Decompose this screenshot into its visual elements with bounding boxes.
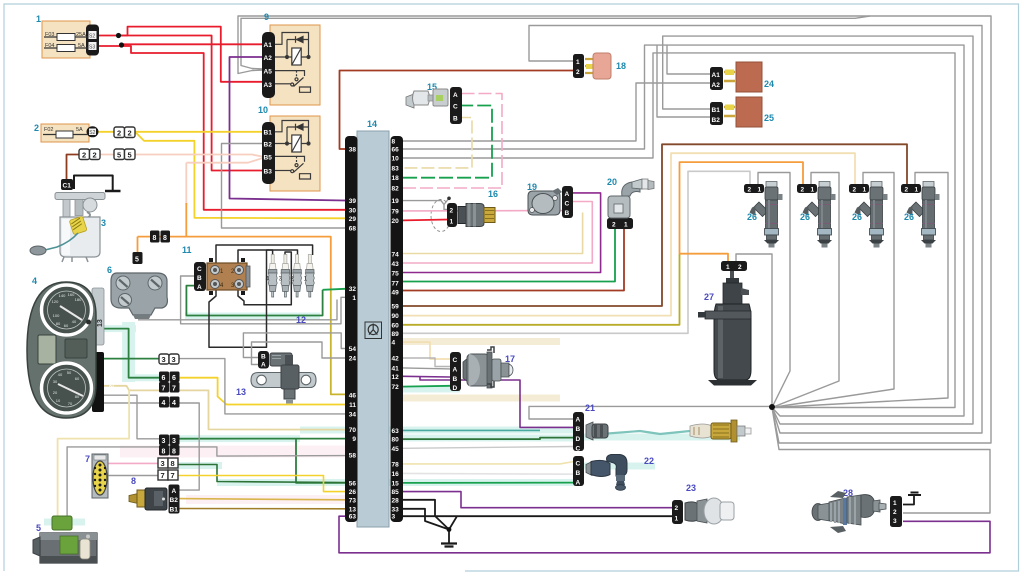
oil pressure sensor 8 [129,476,180,514]
svg-text:41: 41 [392,365,400,372]
svg-text:120: 120 [52,299,59,304]
svg-text:10: 10 [392,156,400,163]
svg-text:13: 13 [349,506,357,513]
svg-text:26: 26 [349,489,357,496]
svg-text:A: A [565,191,570,198]
svg-text:5A: 5A [78,43,85,49]
svg-text:D: D [576,436,581,443]
wire gray: canister valve 27 pin2 up to junction [736,254,772,406]
connector 24 [710,62,774,92]
wire orange: canister 27 pin1 tee [680,254,729,263]
wire gray: immobilizer 5 right down to sensor 8 pin A [67,447,345,519]
wire black: coil t1 to plug1 [216,245,313,266]
immobilizer 5 [33,516,97,563]
wire gray: injector4 pin1 loop to junction [772,173,948,408]
svg-text:83: 83 [392,165,400,172]
svg-text:43: 43 [392,261,400,268]
svg-text:70: 70 [68,401,73,406]
svg-text:B5: B5 [264,155,273,162]
svg-text:66: 66 [392,147,400,154]
svg-text:89: 89 [392,331,400,338]
svg-text:27: 27 [704,292,714,302]
inline connector 2-2 brown row [79,149,100,160]
wire paleyellow: immobilizer 5 up to 7-7 tee [58,390,130,519]
wire brown: pin49 to sensor20 pin1 [403,228,624,291]
svg-text:78: 78 [392,461,400,468]
wire gray: injector1 pin1 loop to junction [758,173,790,408]
svg-text:B2: B2 [712,117,721,124]
svg-text:75: 75 [392,270,400,277]
ignition module 11 [182,245,250,295]
svg-text:C1: C1 [63,183,72,190]
black tag 5 stub [133,252,143,264]
svg-text:8: 8 [172,449,176,456]
wire black: coil t3 to plug3 [238,252,291,305]
svg-text:C: C [197,266,202,273]
svg-text:11: 11 [349,402,356,409]
wire green: ignition module A left down right up to ECU pin32 [186,286,322,316]
svg-text:2: 2 [675,505,679,512]
svg-text:140: 140 [59,293,66,298]
relay 10 [258,105,320,191]
svg-text:F04: F04 [45,43,54,49]
svg-text:58: 58 [349,453,357,460]
svg-text:30: 30 [53,379,58,384]
inline connector 2-2 yellow row [114,127,135,138]
svg-text:7: 7 [162,386,166,393]
wire gray: inline 3-3 white to ECU pin34 [177,359,345,414]
wire gray: 18 pin1 up over to x982 down to junction [529,26,982,434]
wire maroon: ECU pin38 up to connector 18 pin2 [340,71,576,150]
wire black: fuel pump ground [74,176,113,191]
inline pair 4-4 black [159,397,180,408]
wire black: coil t2 to plug2 [238,250,298,266]
svg-text:C: C [453,104,458,111]
svg-text:15: 15 [392,480,400,487]
svg-text:A5: A5 [264,69,273,76]
svg-text:68: 68 [349,226,357,233]
sensor 15 [406,82,462,124]
svg-text:B: B [453,116,458,123]
svg-text:1: 1 [726,264,730,271]
svg-text:180: 180 [75,297,82,302]
svg-text:20: 20 [392,218,400,225]
fuel pump module 3 [30,179,106,262]
wire gray top double line 1: relay9 A5 to right vertical x991 down to junction [241,16,991,443]
svg-text:4: 4 [32,276,37,286]
svg-text:8: 8 [392,139,396,146]
spark plugs 12 [266,255,315,326]
fuse box 1 [36,14,99,58]
svg-text:7: 7 [171,471,175,480]
svg-text:12: 12 [296,315,306,325]
wire olive: x330 down to ECU pin46 [331,289,345,394]
svg-text:2: 2 [893,509,897,516]
wire gray: cluster tab4 through 4-4 to sensor 8 pin A [101,403,199,490]
svg-text:34: 34 [349,411,357,418]
svg-text:10: 10 [258,105,268,115]
svg-text:6: 6 [107,265,112,275]
cam sensor 19 [527,182,573,218]
svg-text:40: 40 [58,372,63,377]
svg-text:63: 63 [349,514,357,521]
svg-text:B3: B3 [264,169,273,176]
svg-text:B2: B2 [264,142,273,149]
wire cream: cluster tab4 to inline 7-7 [101,386,160,391]
svg-text:D: D [453,385,458,392]
svg-text:S3: S3 [89,45,95,51]
svg-text:54: 54 [349,346,357,353]
svg-text:1: 1 [576,59,580,66]
wire gray: crank sensor 13 B up over to ECU pin54 [243,333,345,358]
wire gray: OBD 7 to inline 7-7 [108,475,158,477]
svg-text:2: 2 [748,186,752,193]
svg-text:80: 80 [56,321,61,326]
wire gray: main junction feed and oxygen sensor A drop [529,406,772,419]
svg-text:C: C [453,357,458,364]
wire beige: pin4 to IAC17 C [403,342,450,359]
throttle position sensor 6 [107,265,167,319]
svg-text:60: 60 [64,323,69,328]
svg-text:3: 3 [392,514,396,521]
inline connector 5-5 [114,149,135,160]
highlight cyan bands [44,316,740,522]
svg-text:7: 7 [85,454,90,464]
svg-text:25: 25 [764,113,774,123]
wire maroon: pin59 to injector4 [403,144,907,306]
svg-text:11: 11 [182,245,192,255]
svg-text:49: 49 [392,290,400,297]
svg-text:2: 2 [128,129,132,138]
wire palepink: inline 5-5 connector to relay10 B5 double [98,155,265,157]
wire darkgreen: inline 3-8 right join pin56 [178,465,345,483]
connector 25 [710,97,774,127]
wire purple: pin12 to IAC17 B and oxygen21 B [403,375,450,378]
svg-text:B: B [197,275,202,282]
wire yellow: inline 6-6 to ECU pin11 [177,378,345,405]
wire yellow: sensor 8 B2 to ECU pin73 [180,499,346,500]
svg-text:59: 59 [392,304,400,311]
svg-text:3: 3 [162,355,166,364]
wire green: pin77 to sensor20 pin2 [403,228,615,282]
svg-text:19: 19 [392,198,400,205]
sensor 20 [607,177,654,229]
wire gray: second gray companion line [138,300,337,320]
connector 18 [573,53,626,79]
svg-text:B1: B1 [170,507,179,514]
crank sensor 13 [236,351,316,404]
svg-text:2: 2 [450,208,454,215]
svg-text:1: 1 [352,295,356,302]
sensor 22 [573,455,654,491]
relay 9 [262,12,320,105]
svg-text:6: 6 [162,375,166,382]
svg-text:5: 5 [135,257,139,264]
svg-text:C: C [565,201,570,208]
wire gray: pin41 to IAC17 A2 [403,368,450,369]
svg-text:F03: F03 [45,32,54,38]
svg-text:6: 6 [172,375,176,382]
svg-text:3: 3 [161,459,165,468]
wire teal: pin63r right [403,429,540,431]
svg-text:3: 3 [893,518,897,525]
svg-text:24: 24 [764,79,774,89]
svg-text:8: 8 [153,235,157,242]
svg-text:8: 8 [171,459,175,468]
svg-text:1: 1 [450,219,454,226]
svg-text:5A: 5A [76,127,83,133]
svg-text:46: 46 [349,392,357,399]
inline pairs near cluster: 3-3 [159,354,179,364]
svg-text:17: 17 [505,354,515,364]
knock sensor 16 [447,189,498,227]
ECU 14 [345,119,403,527]
svg-text:26: 26 [747,212,757,222]
wire gray: ignition module B left down to y323.8 to ECU pin1 [181,276,345,324]
svg-text:4: 4 [392,340,396,347]
wire black: pin3 to sensor23 pin1 [403,515,674,517]
svg-text:33: 33 [392,506,400,513]
svg-text:40: 40 [72,319,77,324]
svg-text:25A: 25A [76,32,86,38]
svg-text:B1: B1 [264,130,273,137]
svg-text:5: 5 [128,151,132,160]
svg-text:14: 14 [367,119,377,129]
svg-text:A: A [576,417,581,424]
svg-text:C: C [576,446,581,453]
wire orange: pin60 to injector2 [403,254,680,325]
svg-text:2: 2 [117,129,121,138]
wire purple: pin85 to sensor23 pin2 [403,492,674,508]
svg-text:3: 3 [172,438,176,445]
wire red: branch up to relay9 A3 [118,27,265,82]
OBD connector 7 [85,454,108,498]
wire pink: pin43 to cam19 C [403,202,592,264]
svg-text:50: 50 [67,370,72,375]
left pin labels [349,147,357,521]
injectors 26 x4 [744,182,783,248]
svg-text:2: 2 [34,123,39,133]
svg-text:7: 7 [172,386,176,393]
svg-text:A: A [576,480,581,487]
wire darkgreen: pin80 to oxygen21 D [403,438,574,440]
svg-text:2: 2 [576,69,580,76]
svg-text:B1: B1 [712,107,721,114]
wire paleyellow: pin78 to sensor22 C [403,462,574,464]
ground symbol 28 [908,493,921,496]
svg-text:23: 23 [686,483,696,493]
wire red: fuse1 S2 out with junction dot [99,36,265,171]
svg-text:5: 5 [117,151,121,160]
wire black: pin33 to ground [403,509,449,530]
svg-text:3: 3 [162,438,166,445]
svg-text:18: 18 [616,61,626,71]
svg-text:3: 3 [172,355,176,364]
svg-text:20: 20 [607,177,617,187]
wire darkgreen: cluster tab4 to inline 3-3 white [101,358,160,360]
svg-text:24: 24 [349,356,357,363]
wire purple: relay9 A2 down to ECU pin39 [230,57,346,201]
wire green: pin72 to IAC17 D [403,385,450,388]
svg-text:60: 60 [392,323,400,330]
svg-text:13: 13 [236,387,246,397]
svg-text:B: B [576,426,581,433]
black tag 8-8 orange row [150,231,170,243]
svg-text:1: 1 [893,500,897,507]
wire yellow: fuse2 to relay10 B1 [99,131,266,133]
svg-text:2: 2 [612,222,616,229]
svg-text:5: 5 [36,523,41,533]
svg-text:2: 2 [93,151,97,160]
wire green: pin18 to sensor15 C [403,106,492,178]
svg-text:A: A [197,284,202,291]
svg-text:A: A [261,362,266,369]
wire pink: pin82 to sensor15 A [403,94,502,189]
svg-text:28: 28 [392,497,400,504]
svg-text:10: 10 [56,398,61,403]
svg-text:B2: B2 [170,497,179,504]
svg-text:90: 90 [392,313,400,320]
wire gray: ECU pin66 up x644 over y52 to x955 down to junction [403,45,964,416]
wire gray: 25 B1 up x652 over y34 to x973 down to junction [663,36,973,424]
svg-text:39: 39 [349,198,357,205]
svg-text:20: 20 [53,390,58,395]
svg-text:77: 77 [392,281,400,288]
wire gray: cluster tab4 to inline 3-3 black [101,395,160,439]
svg-text:22: 22 [644,456,654,466]
wire gray: pin45 to oxygen21 C [403,447,574,449]
wire teal: oxygen sensor lead [601,431,690,434]
svg-text:B: B [576,470,581,477]
svg-text:82: 82 [392,186,400,193]
svg-text:21: 21 [585,403,595,413]
svg-text:8: 8 [131,476,136,486]
wire brown: sensor 8 B1 to ECU pin13 [180,508,346,510]
wire black: ground stem below ECU [449,516,457,543]
wire pink: pin79 to cam19 B [403,210,566,212]
svg-text:30: 30 [349,207,357,214]
wire white: pin16 to sensor22 B [403,472,574,475]
svg-text:29: 29 [349,216,357,223]
wire gray: pin42 to IAC17 A [403,358,450,367]
svg-text:4: 4 [172,400,176,407]
svg-text:16: 16 [488,189,498,199]
wire beige: pin74 up to cam19 B nest [403,213,583,254]
wire cream: pin90 to injector3 [403,153,855,315]
svg-text:7: 7 [161,471,165,480]
svg-text:18: 18 [392,175,400,182]
junction dot main [769,404,775,410]
svg-text:63: 63 [392,428,400,435]
wire black: coil t4 to plug4 [209,250,273,347]
oxygen sensor 21 [573,403,751,453]
wire palegray: pin89 to injector1 [403,171,750,333]
svg-text:12 2 21: 12 2 21 [109,370,116,392]
svg-text:B: B [453,376,458,383]
svg-text:38: 38 [349,147,357,154]
inline connectors 3-8 / 7-7 white [158,458,178,480]
svg-text:85: 85 [392,489,400,496]
wire gray: injector3 pin1 loop to junction [772,173,894,408]
svg-text:45: 45 [392,446,400,453]
wire gray: 24 A1 up x662 over y45 to x964 down to junction [667,45,712,74]
svg-text:12: 12 [392,374,400,381]
wire yellow: branch down to ECU pin29 [135,132,345,219]
wire brown: inline 2-2 down to fuel pump C1 [67,155,81,181]
svg-text:C: C [576,461,581,468]
right pin labels [392,139,400,521]
wire gray: crank sensor 13 A up over to ECU pin24 [252,342,346,365]
wire red: fuse1 S3 out to ECU pin30 [99,46,345,210]
svg-text:9: 9 [352,436,356,443]
wire red: pin20 to knock16 pin1 [403,219,449,222]
svg-text:S2: S2 [89,130,95,136]
svg-text:72: 72 [392,384,400,391]
stepper 28 [812,488,902,533]
svg-text:42: 42 [392,356,400,363]
svg-text:A3: A3 [264,82,273,89]
svg-text:74: 74 [392,251,400,258]
svg-text:32: 32 [349,286,357,293]
wire pink: OBD 7 to inline 3-8 [108,462,158,464]
wire green: pin15 to sensor22 A [403,482,574,484]
svg-text:2: 2 [738,264,742,271]
instrument cluster 4 [27,276,116,418]
svg-text:56: 56 [349,480,357,487]
inline pairs 6-6 / 7-7 black [159,372,180,393]
svg-text:A2: A2 [712,82,721,89]
wire black: pin28 to ground [403,500,449,530]
wire purple: ECU pin63 left down along bottom to 28 pin3 [339,516,990,553]
svg-text:A: A [453,367,458,374]
wire orange: vertical x185 down from canister line, over 8-8 row to x330 down [138,237,331,289]
wire red: branch to relay9 A1 [121,44,265,46]
junction dots red [116,33,121,38]
IAC valve 17 [450,347,515,392]
svg-text:100: 100 [53,313,60,318]
wire green: cluster tab13 down to inline 6-6 [102,329,160,378]
svg-text:9: 9 [264,12,269,22]
svg-text:4: 4 [97,348,104,352]
svg-text:1: 1 [36,14,41,24]
wire gray: relay10 B2 down x221 to ECU pin68 [222,144,346,229]
svg-text:A2: A2 [264,55,273,62]
svg-text:B: B [261,354,266,361]
svg-text:79: 79 [392,208,400,215]
svg-text:A1: A1 [264,42,273,49]
svg-text:8: 8 [163,235,167,242]
svg-text:F02: F02 [44,127,53,133]
svg-text:S2: S2 [89,34,95,40]
inline pairs 3-3 / 8-8 black lower [159,435,180,456]
svg-text:70: 70 [349,427,357,434]
wire beige: sensor15 B down [403,118,472,168]
svg-text:80: 80 [392,437,400,444]
wire gray: ECU pin8 up x636 to 24 A2 [403,83,712,141]
wire gray: injector2 pin1 loop to junction [772,173,839,408]
svg-text:8: 8 [162,449,166,456]
svg-text:1: 1 [624,222,628,229]
svg-text:16: 16 [392,471,400,478]
svg-text:2: 2 [82,151,86,160]
svg-text:A1: A1 [712,72,721,79]
svg-text:B: B [565,210,570,217]
svg-text:73: 73 [349,497,357,504]
fuse box 2 [34,123,99,142]
canister valve 27 [698,261,757,386]
wire gray: ECU pin10 up x653 to 25 B2 [403,53,955,408]
svg-text:1: 1 [675,516,679,523]
